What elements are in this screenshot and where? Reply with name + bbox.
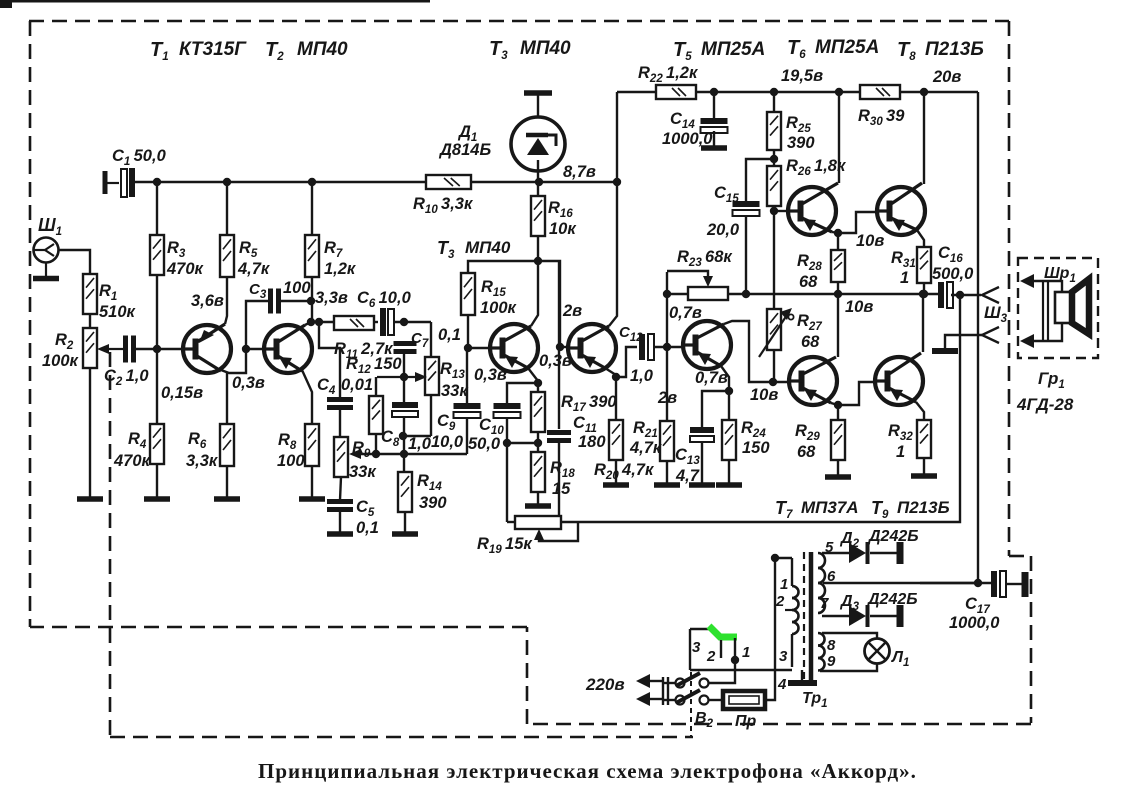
capacitor C1 bbox=[121, 169, 127, 197]
ground R2 bbox=[77, 496, 103, 502]
wire rail 617 riser bbox=[616, 92, 618, 182]
capacitor C14 bbox=[701, 118, 728, 124]
wire T6 base bbox=[773, 206, 775, 211]
wire junction left to R15 bbox=[468, 261, 538, 273]
node R12 wiper line bbox=[372, 450, 380, 458]
wire T6em to T8 base bbox=[838, 212, 878, 233]
resistor R12 bbox=[369, 396, 383, 434]
svg-text:150: 150 bbox=[742, 439, 770, 457]
svg-text:100к: 100к bbox=[480, 299, 518, 317]
resistor R19 potentiometer horizontal bbox=[515, 516, 561, 529]
svg-text:3: 3 bbox=[779, 648, 788, 665]
ground R8 bbox=[299, 496, 325, 502]
wire R28 to bus bbox=[837, 282, 839, 294]
wire R18 ground bbox=[537, 492, 539, 504]
capacitor C11 bbox=[547, 430, 571, 435]
wire selector bottom bbox=[690, 669, 792, 671]
speaker Gr1 driver bbox=[1055, 292, 1072, 323]
svg-text:C2 1,0: C2 1,0 bbox=[104, 367, 149, 388]
ground R21 bar bbox=[654, 482, 680, 488]
wire T6 collector bbox=[838, 92, 840, 183]
ground Sh1 bbox=[45, 263, 47, 278]
plug arrow lower bbox=[646, 698, 662, 700]
wire D1 top bbox=[537, 93, 539, 117]
wire T8 emitter bbox=[917, 230, 924, 247]
feedback line to output bbox=[561, 294, 960, 522]
svg-text:33к: 33к bbox=[441, 382, 469, 400]
transistor T8 bbox=[877, 187, 925, 235]
capacitor C3 bbox=[268, 289, 273, 314]
ground R29 bar bbox=[825, 474, 851, 480]
node T5b bus bbox=[663, 290, 671, 298]
capacitor C5 bbox=[327, 499, 353, 504]
svg-text:C6 10,0: C6 10,0 bbox=[357, 289, 412, 310]
resistor R2 potentiometer bbox=[83, 328, 97, 368]
transistor T5 bbox=[683, 321, 731, 369]
wire R7 stub bbox=[311, 182, 313, 235]
wire R31 to bus bbox=[923, 283, 925, 294]
wire C14 bbox=[713, 92, 715, 121]
wire tap7 bbox=[822, 615, 849, 617]
wire C15 to bus bbox=[745, 216, 747, 294]
wire to C13 bbox=[702, 391, 729, 428]
svg-text:20,0: 20,0 bbox=[706, 221, 740, 239]
wire C9 riser bbox=[466, 418, 468, 454]
wire switch to fuse bbox=[708, 699, 723, 701]
transistor T4 bbox=[568, 324, 616, 372]
wire R1-R2 bbox=[89, 314, 91, 328]
node rect output bbox=[974, 579, 982, 587]
wire R5 stub bbox=[226, 182, 228, 235]
wire T2 emitter to R8 bbox=[302, 370, 312, 424]
ground R6 bbox=[214, 496, 240, 502]
output bus bbox=[667, 293, 688, 295]
svg-text:100: 100 bbox=[277, 452, 305, 470]
node T2 collector bbox=[307, 318, 315, 326]
scan edge mark bbox=[0, 0, 430, 3]
svg-text:Д814Б: Д814Б bbox=[438, 141, 491, 159]
transistor T9 bbox=[875, 357, 923, 405]
terminal D3 bbox=[897, 605, 904, 627]
wire R4 bbox=[156, 349, 158, 424]
wire T1 emitter junction bbox=[221, 351, 246, 373]
svg-text:МП40: МП40 bbox=[297, 39, 348, 60]
plug bars bbox=[662, 677, 664, 705]
resistor R25 bbox=[767, 112, 781, 150]
wire R22 to corner bbox=[696, 91, 978, 93]
wire pin1 to switch bbox=[709, 660, 735, 683]
node rail end bbox=[613, 178, 621, 186]
svg-text:МП40: МП40 bbox=[465, 238, 511, 257]
wire R17-R18 bbox=[537, 432, 539, 452]
wire R11-C6 bbox=[374, 321, 378, 323]
node R28 bus bbox=[834, 290, 842, 298]
wire rect output bbox=[920, 582, 992, 584]
capacitor C17 bbox=[991, 571, 997, 597]
speaker arrow top bbox=[1020, 274, 1034, 288]
chassis dashed border left bbox=[29, 21, 32, 627]
resistor R31 bbox=[917, 247, 931, 283]
capacitor C15 bbox=[733, 201, 760, 207]
svg-text:15: 15 bbox=[552, 480, 571, 498]
svg-text:0,3в: 0,3в bbox=[474, 366, 507, 384]
wire coupling to T2 base bbox=[246, 348, 264, 350]
shield dashed line vertical bbox=[109, 352, 112, 737]
node T6 base bbox=[770, 207, 778, 215]
svg-text:0,01: 0,01 bbox=[341, 376, 373, 394]
svg-text:180: 180 bbox=[578, 433, 606, 451]
svg-text:П213Б: П213Б bbox=[897, 498, 950, 517]
svg-text:R19 15к: R19 15к bbox=[477, 535, 533, 556]
wire C10 down to R19 bbox=[506, 417, 508, 517]
transistor T3 bbox=[490, 324, 538, 372]
wire R12 stubs bbox=[375, 377, 377, 396]
ground C13 bar bbox=[689, 482, 715, 488]
resistor R23 potentiometer bbox=[688, 287, 728, 300]
ground Sh3 bar bbox=[932, 348, 958, 354]
svg-text:МП40: МП40 bbox=[520, 38, 571, 59]
terminal C17 bbox=[1022, 572, 1029, 597]
wire tap6 to C17 bbox=[823, 582, 978, 584]
svg-text:1000,0: 1000,0 bbox=[949, 614, 1000, 632]
svg-text:0,7в: 0,7в bbox=[695, 369, 728, 387]
svg-text:50,0: 50,0 bbox=[468, 435, 501, 453]
node R17 R18 C10link bbox=[534, 439, 542, 447]
wire T6 emitter bbox=[832, 232, 838, 233]
wire Sh3 lower to ground bbox=[945, 335, 982, 349]
R19 wiper bbox=[534, 529, 544, 540]
capacitor C8 bbox=[392, 402, 418, 408]
node T4 emitter bbox=[612, 373, 620, 381]
svg-text:1,0: 1,0 bbox=[408, 435, 432, 453]
resistor R15 bbox=[461, 273, 475, 315]
svg-text:1: 1 bbox=[896, 443, 905, 461]
wire R19 left bbox=[506, 517, 508, 522]
wire T9 emitter bbox=[916, 402, 924, 420]
wire R9 to C5 bbox=[340, 477, 341, 500]
resistor R6 bbox=[220, 424, 234, 466]
node T3 collector junction bbox=[534, 257, 542, 265]
svg-text:R22 1,2к: R22 1,2к bbox=[638, 64, 699, 85]
R13 wiper arrow bbox=[377, 376, 422, 378]
resistor R10 bbox=[426, 175, 471, 189]
svg-text:R12 150: R12 150 bbox=[346, 355, 402, 376]
resistor R30 bbox=[860, 85, 900, 99]
wire T3em to C10 col bbox=[507, 383, 538, 403]
ground R20 bar bbox=[603, 482, 629, 488]
resistor R5 bbox=[220, 235, 234, 277]
wire T2 collector bbox=[305, 322, 311, 325]
transistor T1 bbox=[183, 325, 231, 373]
svg-text:1,0: 1,0 bbox=[630, 367, 654, 385]
connector Sh1 microphone bbox=[34, 238, 59, 263]
wire C9 top bbox=[466, 348, 468, 403]
svg-text:10в: 10в bbox=[845, 298, 873, 316]
R2 wiper arrow bbox=[102, 348, 124, 350]
node T7 base R27 bbox=[769, 378, 777, 386]
wire R26 stub bbox=[773, 150, 775, 166]
switch B2 link bbox=[690, 672, 692, 736]
connector Sh3 upper contact bbox=[982, 287, 999, 303]
wire C5 ground bbox=[339, 510, 341, 532]
wire junction right to T4 base bbox=[538, 261, 560, 347]
node R25 top bbox=[770, 88, 778, 96]
wire R17 top bbox=[537, 383, 539, 392]
node R3/base junction bbox=[153, 345, 161, 353]
wire R6 ground bbox=[226, 466, 228, 497]
node C7 junction bbox=[400, 318, 408, 326]
svg-text:33к: 33к bbox=[349, 463, 377, 481]
svg-text:C1 50,0: C1 50,0 bbox=[112, 147, 167, 168]
wire Sh1 to R1 bbox=[58, 250, 90, 274]
svg-text:Принципиальная электрическая с: Принципиальная электрическая схема элект… bbox=[258, 759, 917, 783]
switch B2 contacts right bbox=[700, 679, 709, 688]
svg-text:4,7к: 4,7к bbox=[237, 260, 271, 278]
svg-text:68: 68 bbox=[801, 333, 820, 351]
wire fuse to primary bbox=[765, 558, 775, 700]
speaker dashed box bbox=[1018, 258, 1098, 358]
wire C7 down to C8 bbox=[403, 354, 405, 404]
ground R4 bar bbox=[144, 496, 170, 502]
svg-text:R23 68к: R23 68к bbox=[677, 248, 733, 269]
svg-text:2: 2 bbox=[706, 648, 716, 665]
wire T9 collector bbox=[922, 294, 924, 352]
ground R24 bar bbox=[716, 482, 742, 488]
svg-text:0,1: 0,1 bbox=[356, 519, 379, 537]
svg-text:Д242Б: Д242Б bbox=[866, 591, 918, 608]
svg-text:470к: 470к bbox=[113, 452, 152, 470]
capacitor C10 bbox=[494, 403, 521, 409]
wire R2 down to ground bbox=[89, 368, 91, 497]
resistor R29 bbox=[831, 420, 845, 460]
wire R29 stub bbox=[837, 405, 839, 420]
wire T8 collector bbox=[923, 92, 925, 184]
ground R32 bar bbox=[911, 473, 937, 479]
wire R7 to T2 collector bbox=[311, 277, 313, 322]
resistor R8 bbox=[305, 424, 319, 466]
wire C16 out bbox=[951, 294, 981, 296]
svg-text:10в: 10в bbox=[750, 386, 778, 404]
transformer Tr1 primary bbox=[775, 557, 792, 559]
wire R15 to T3 base bbox=[467, 315, 469, 348]
wire R24 ground bbox=[728, 460, 730, 483]
plug arrow upper bbox=[646, 680, 662, 682]
node C8 wiper cross bbox=[400, 450, 408, 458]
transformer winding 8-9 bbox=[818, 633, 825, 646]
speaker wire top bbox=[1032, 281, 1062, 292]
chassis dashed border step vertical bbox=[526, 627, 529, 724]
resistor R7 bbox=[305, 235, 319, 277]
svg-text:4,7к: 4,7к bbox=[629, 439, 663, 457]
svg-text:МП37А: МП37А bbox=[801, 498, 859, 517]
chassis dashed border jog bbox=[1009, 555, 1031, 558]
wire R13 bottom bbox=[430, 395, 432, 436]
shield dashed line bottom bbox=[110, 736, 693, 739]
svg-text:R20 4,7к: R20 4,7к bbox=[594, 461, 655, 482]
resistor R32 bbox=[917, 420, 931, 458]
selector pin 1 bbox=[734, 638, 736, 660]
wire R13 top bbox=[430, 322, 432, 357]
node C14 bbox=[710, 88, 718, 96]
transformer secondary 5-6-7 bbox=[818, 553, 825, 568]
svg-text:0,7в: 0,7в bbox=[669, 304, 702, 322]
svg-text:0,3в: 0,3в bbox=[232, 374, 265, 392]
wire C11 top bbox=[558, 261, 560, 429]
svg-text:Пр: Пр bbox=[735, 713, 757, 730]
wire C2 to T1 base bbox=[134, 348, 183, 350]
resistor R3 bbox=[150, 235, 164, 275]
wire rail top right bbox=[617, 91, 656, 93]
svg-text:П213Б: П213Б bbox=[925, 39, 984, 60]
terminal bar above D1 bbox=[524, 90, 552, 96]
svg-text:19,5в: 19,5в bbox=[781, 67, 823, 85]
transistor T6 bbox=[788, 187, 836, 235]
resistor R9 potentiometer bbox=[334, 437, 348, 477]
wire T7em to T9 base bbox=[838, 382, 876, 405]
resistor R22 bbox=[656, 85, 696, 99]
node T6 emitter bbox=[834, 229, 842, 237]
wire C11 bottom bbox=[558, 443, 560, 516]
node T3 emitter bbox=[534, 379, 542, 387]
wire C6 right bbox=[394, 321, 431, 323]
chassis dashed border bottom right bbox=[527, 723, 1031, 726]
wire T4 collector bbox=[609, 182, 617, 326]
resistor R4 bbox=[150, 424, 164, 464]
node T9 collector bus bbox=[919, 290, 927, 298]
wire R27 bottom bbox=[773, 350, 775, 382]
resistor R18 bbox=[531, 452, 545, 492]
svg-text:9: 9 bbox=[827, 653, 836, 670]
transistor T7 bbox=[789, 357, 837, 405]
svg-text:68: 68 bbox=[799, 273, 818, 291]
node T4 base bbox=[556, 343, 564, 351]
capacitor C1 terminal bar bbox=[103, 171, 108, 194]
variable resistor R27 bbox=[767, 309, 781, 350]
svg-text:390: 390 bbox=[787, 134, 815, 152]
speaker plug lines bbox=[1042, 281, 1044, 341]
resistor R1 bbox=[83, 274, 97, 314]
wire T5 collector bbox=[724, 321, 791, 382]
wire C13 ground bbox=[701, 442, 703, 483]
zener D1 circle bbox=[511, 117, 565, 171]
svg-text:1: 1 bbox=[780, 576, 788, 593]
chassis dashed border top bbox=[29, 20, 1009, 23]
node T8 collector rail bbox=[920, 88, 928, 96]
ground C14 bar bbox=[701, 145, 727, 151]
wire C3 right bbox=[280, 300, 311, 302]
node rail R7 bbox=[308, 178, 316, 186]
wire R29 ground bbox=[837, 460, 839, 475]
svg-text:220в: 220в bbox=[585, 675, 625, 694]
svg-text:10,0: 10,0 bbox=[431, 433, 464, 451]
svg-text:10к: 10к bbox=[549, 220, 577, 238]
resistor R14 bbox=[398, 472, 412, 512]
capacitor C16 bbox=[938, 282, 944, 308]
wire T7 emitter bbox=[831, 403, 838, 405]
primary tap 2 tick bbox=[785, 609, 792, 611]
node C7 wiper cross bbox=[400, 373, 408, 381]
R27 arrow bbox=[759, 312, 789, 357]
wire R26-R27 column bbox=[773, 211, 775, 309]
wire T5 base col bbox=[666, 272, 668, 421]
resistor R21 bbox=[660, 421, 674, 461]
wire T4em to R20 bbox=[615, 377, 617, 420]
wire R20 ground bbox=[615, 460, 617, 483]
node C16 out bbox=[956, 291, 964, 299]
node T7 emitter bbox=[834, 401, 842, 409]
node R25 R26 C15 bbox=[770, 155, 778, 163]
node C4 branch bbox=[315, 318, 323, 326]
node output junction bbox=[920, 290, 928, 298]
wire R16 top bbox=[537, 182, 539, 196]
wire D2 out bbox=[870, 552, 897, 554]
selector pin 2 bbox=[720, 640, 722, 658]
svg-text:510к: 510к bbox=[99, 303, 137, 321]
capacitor C13 bbox=[690, 427, 714, 433]
wire T1 collector to R5 bbox=[225, 277, 227, 324]
svg-text:100к: 100к bbox=[42, 352, 80, 370]
wire T7 collector bbox=[837, 294, 839, 357]
zener D1 symbol bbox=[527, 138, 549, 155]
switch B2 contacts left bbox=[676, 679, 685, 688]
wire rail left bbox=[135, 181, 426, 183]
transformer core bbox=[803, 552, 805, 680]
wire T4 base bbox=[560, 346, 568, 348]
svg-text:3,6в: 3,6в bbox=[191, 292, 224, 310]
node T6 collector rail bbox=[835, 88, 843, 96]
wire C17 right bbox=[1006, 583, 1022, 585]
svg-text:470к: 470к bbox=[166, 260, 205, 278]
wire C4 branch bbox=[319, 322, 340, 398]
svg-text:1: 1 bbox=[900, 269, 909, 287]
wire T5 emitter bbox=[721, 366, 729, 420]
chassis dashed border right upper bbox=[1008, 21, 1011, 556]
resistor R24 bbox=[722, 420, 736, 460]
wire T3 collector bbox=[531, 261, 538, 326]
node C15 bus bbox=[742, 290, 750, 298]
svg-text:3,3к: 3,3к bbox=[186, 452, 219, 470]
diode D2 bbox=[849, 543, 866, 563]
transistor T2 bbox=[264, 325, 312, 373]
svg-text:8,7в: 8,7в bbox=[563, 163, 596, 181]
chassis dashed border right lower bbox=[1030, 556, 1033, 723]
svg-text:0,1: 0,1 bbox=[438, 326, 461, 344]
wire T1 emitter to R6 bbox=[226, 373, 228, 424]
wire rail corner down bbox=[977, 92, 979, 582]
svg-text:2в: 2в bbox=[562, 302, 582, 320]
wire R8 ground bbox=[311, 466, 313, 497]
resistor R16 bbox=[531, 196, 545, 236]
wire C10 R17 link bbox=[507, 442, 538, 444]
voltage selector box bbox=[690, 628, 710, 630]
capacitor C6 bbox=[380, 308, 386, 336]
wire T4em to C12 bbox=[616, 347, 637, 377]
terminal D2 bbox=[897, 542, 904, 564]
wire R3 stub bbox=[156, 182, 158, 235]
node rail R3 bbox=[153, 178, 161, 186]
node T3 base C9 bbox=[468, 347, 490, 349]
resistor R28 bbox=[831, 250, 845, 282]
svg-text:1,2к: 1,2к bbox=[324, 260, 357, 278]
svg-text:3,3в: 3,3в bbox=[315, 289, 348, 307]
ground R18 bar bbox=[525, 503, 551, 509]
wire C8 down bbox=[403, 417, 405, 472]
wire tap5 bbox=[822, 552, 849, 554]
capacitor C12 bbox=[639, 334, 645, 360]
wire R16 bottom bbox=[537, 236, 539, 261]
node rail R5 bbox=[223, 178, 231, 186]
node primary top bbox=[771, 554, 779, 562]
